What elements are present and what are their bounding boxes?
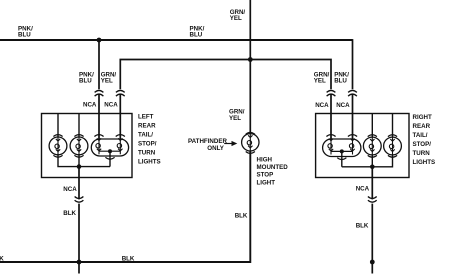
dual filament stop/turn bulb left — [91, 136, 128, 156]
socket arc below left dual bulb — [105, 157, 114, 159]
svg-text:BLU: BLU — [18, 32, 31, 39]
svg-text:TAIL/: TAIL/ — [138, 132, 153, 139]
wire from left box bus down through box — [78, 167, 80, 200]
junction dot inside left dual bulb — [108, 149, 112, 153]
wire PNK/BLU right drop to right lamp — [352, 39, 354, 139]
svg-text:NCA: NCA — [104, 101, 118, 108]
wire ground bus right box — [342, 155, 393, 167]
wire right box internal to tail bulb 4 — [392, 114, 394, 138]
wire link inside right dual bulb — [331, 150, 353, 152]
svg-text:LIGHT: LIGHT — [257, 179, 276, 186]
junction dot on PNK/BLU main at left drop — [97, 38, 102, 43]
connector on GRN/YEL left drop — [116, 90, 125, 96]
svg-text:BLU: BLU — [334, 78, 347, 85]
svg-text:NCA: NCA — [336, 102, 350, 109]
svg-text:MOUNTED: MOUNTED — [257, 164, 289, 171]
svg-text:TURN: TURN — [138, 150, 156, 157]
wire left box internal to tail bulb 1 — [57, 114, 59, 138]
splice dot BLK right — [370, 260, 375, 265]
svg-text:YEL: YEL — [229, 115, 241, 122]
bulb left tail 1 — [49, 137, 67, 155]
wire BLK left to ground line — [78, 204, 80, 274]
svg-text:TAIL/: TAIL/ — [413, 132, 428, 139]
socket arc above left bulb 2 — [74, 135, 83, 137]
svg-text:BLK: BLK — [356, 222, 369, 229]
wire PNK/BLU main horizontal (net across top) — [0, 39, 353, 41]
socket arc below high mounted stop light — [246, 152, 255, 154]
socket arc below right bulb 4 — [388, 155, 397, 157]
junction dot BLK ground line at left lamp wire — [77, 260, 82, 265]
connector on PNK/BLU left drop — [95, 90, 104, 96]
right lamp box outline — [316, 114, 409, 178]
junction dot GRN/YEL vertical with GRN/YEL horizontal — [248, 57, 253, 62]
dual filament stop/turn bulb right — [323, 137, 361, 157]
svg-text:NCA: NCA — [356, 185, 370, 192]
svg-text:ONLY: ONLY — [207, 145, 224, 152]
svg-text:LIGHTS: LIGHTS — [413, 159, 436, 166]
socket arc below right bulb 3 — [368, 155, 377, 157]
svg-text:LIGHTS: LIGHTS — [138, 159, 161, 166]
wire BLK from high mounted stop light to ground line — [0, 151, 250, 262]
socket arc above left dual filament right — [116, 135, 125, 137]
svg-text:STOP: STOP — [257, 172, 274, 179]
socket arc below right dual bulb — [337, 158, 346, 160]
svg-text:NCA: NCA — [315, 102, 329, 109]
svg-text:BLK: BLK — [235, 213, 248, 220]
wire tap from left dual bulb to bus — [109, 151, 111, 166]
svg-text:REAR: REAR — [413, 123, 431, 130]
connector below left box — [75, 197, 84, 203]
junction dot left box bus — [77, 164, 82, 169]
connector on GRN/YEL right drop — [327, 90, 336, 96]
label RIGHT REAR TAIL/STOP/TURN LIGHTS — [413, 114, 436, 166]
socket arc above left dual filament left — [94, 135, 103, 137]
socket arc above right bulb 3 — [368, 135, 377, 137]
socket arc above right dual filament left — [326, 135, 335, 137]
svg-text:YEL: YEL — [101, 78, 113, 85]
svg-text:BLU: BLU — [79, 78, 92, 85]
socket arc above left bulb 1 — [53, 135, 62, 137]
svg-text:NCA: NCA — [83, 101, 97, 108]
wire GRN/YEL vertical from top to high mounted stop light — [249, 0, 251, 134]
wire tap from right dual bulb to bus — [341, 151, 343, 166]
arrow pointing to high mounted stop light — [224, 143, 232, 145]
svg-text:PATHFINDER: PATHFINDER — [188, 138, 227, 145]
wire ground bus left box — [58, 155, 110, 167]
junction dot inside right dual bulb — [340, 149, 344, 153]
socket arc below left bulb 2 — [74, 155, 83, 157]
svg-text:BLK: BLK — [122, 255, 135, 262]
wire GRN/YEL right drop lower part — [330, 94, 332, 139]
bulb high mounted stop light — [242, 133, 259, 151]
svg-text:LEFT: LEFT — [138, 114, 154, 121]
wire right box internal to tail bulb 3 — [371, 114, 373, 138]
wire GRN/YEL left drop lower part — [119, 94, 121, 139]
svg-text:STOP/: STOP/ — [138, 141, 157, 148]
svg-text:RIGHT: RIGHT — [413, 114, 432, 121]
svg-text:BLK: BLK — [63, 210, 76, 217]
svg-text:YEL: YEL — [314, 78, 326, 85]
connector below right box — [368, 197, 377, 203]
left lamp box outline — [42, 114, 133, 178]
wire PNK/BLU left drop to left lamp — [98, 40, 100, 139]
svg-text:REAR: REAR — [138, 123, 156, 130]
wire left box internal to tail bulb 2 — [78, 114, 80, 138]
wire BLK right lower — [371, 204, 373, 274]
label HIGH MOUNTED STOP LIGHT — [257, 156, 289, 186]
socket arc below left bulb 1 — [53, 155, 62, 157]
bulb right tail 3 — [363, 137, 381, 155]
connector on PNK/BLU right drop — [348, 90, 357, 96]
bulb left tail 2 — [70, 137, 88, 155]
svg-text:BLK: BLK — [0, 255, 4, 262]
svg-text:STOP/: STOP/ — [413, 141, 432, 148]
socket arc above high mounted stop light — [246, 132, 255, 134]
socket arc above right bulb 4 — [388, 135, 397, 137]
svg-text:BLU: BLU — [190, 32, 203, 39]
wire link inside left dual bulb — [99, 150, 120, 152]
svg-text:HIGH: HIGH — [257, 156, 273, 163]
wire from right box bus down through box — [371, 167, 373, 200]
bulb right tail 4 — [384, 137, 402, 155]
wire GRN/YEL horizontal (net to both tail lamps) — [120, 60, 331, 90]
svg-text:NCA: NCA — [63, 186, 77, 193]
junction dot right box bus — [370, 165, 375, 170]
label LEFT REAR TAIL/STOP/TURN LIGHTS — [138, 114, 161, 166]
svg-text:YEL: YEL — [230, 15, 242, 22]
svg-text:TURN: TURN — [413, 150, 431, 157]
socket arc above right dual filament right — [348, 135, 357, 137]
